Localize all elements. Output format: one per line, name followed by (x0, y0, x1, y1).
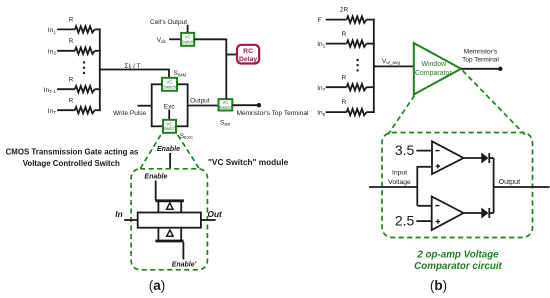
Enable' wire and label (172, 242, 197, 268)
wire loop left vertical (151, 83, 153, 127)
diode D1 (top) (464, 153, 494, 164)
input InT with resistor R (48, 97, 101, 116)
svg-text:In7: In7 (317, 85, 325, 93)
svg-text:Voltage Controlled Switch: Voltage Controlled Switch (23, 159, 120, 168)
svg-text:Out: Out (208, 209, 224, 219)
svg-text:Memristor's Top Terminal: Memristor's Top Terminal (237, 110, 309, 117)
reference 3.5 label and wire (395, 142, 432, 158)
wire loop bottom-right (176, 125, 188, 127)
Write Pulse input wire and label (113, 106, 152, 117)
svg-text:2.5: 2.5 (395, 213, 415, 229)
Cell's Output label and control wire (150, 19, 188, 33)
svg-text:InT: InT (48, 108, 56, 116)
input In2 with resistor R (48, 38, 101, 57)
svg-text:R: R (69, 76, 74, 83)
svg-text:Memristor's: Memristor's (464, 48, 498, 55)
transmission gate: bottom transistor (NMOS) (155, 228, 183, 241)
svg-text:CMOS Transmission Gate acting: CMOS Transmission Gate acting as (6, 147, 139, 156)
caption: 2 op-amp voltage comparator circuit (414, 249, 502, 272)
switch S_IMM (VC Switch) (162, 70, 187, 91)
op-amp A1 (top) (432, 141, 464, 174)
Enable label and gate wire (inside module) (144, 174, 167, 201)
svg-text:F: F (318, 17, 322, 24)
output bus wire joining diodes (493, 158, 495, 213)
input splitter wires to op-amp inputs (417, 166, 432, 206)
svg-text:In1: In1 (317, 41, 325, 49)
wire loop (parallel branch rectangle) (152, 83, 188, 127)
In wire and label (115, 209, 137, 220)
node Exc label and control wire (164, 103, 176, 120)
input InT-1 with resistor R (44, 76, 101, 95)
svg-text:R: R (342, 99, 347, 106)
RC Delay block (226, 45, 259, 64)
Enable control label (above module box) with stub (157, 146, 180, 168)
svg-text:Delay: Delay (239, 56, 257, 63)
svg-text:In8: In8 (317, 110, 325, 118)
svg-text:Switch: Switch (219, 105, 232, 110)
svg-text:R: R (69, 38, 74, 45)
svg-text:Vw_avg: Vw_avg (382, 58, 401, 66)
transmission gate: central channel band (138, 213, 201, 228)
wire loop top-right (177, 83, 188, 85)
svg-text:Output: Output (499, 177, 521, 186)
svg-text:2R: 2R (340, 7, 349, 14)
svg-text:R: R (342, 31, 347, 38)
svg-text:SRP: SRP (220, 120, 230, 127)
Output wire and label (a) (188, 98, 219, 106)
wire to memristor terminal with node dot (a) (232, 103, 309, 117)
switch S_RP (VC Switch) (219, 99, 233, 127)
input In8 with resistor R (b) (317, 99, 375, 118)
svg-text:Cell's Output: Cell's Output (150, 19, 187, 26)
reference 2.5 label and wire (395, 213, 432, 229)
dashed VC switch module box (131, 169, 207, 270)
svg-text:(b): (b) (430, 278, 447, 293)
svg-text:Input: Input (392, 169, 407, 176)
svg-text:Switch: Switch (181, 39, 194, 44)
svg-text:Enable': Enable' (172, 261, 197, 268)
svg-text:RC: RC (243, 48, 253, 55)
Output wire and label (b) (494, 177, 550, 187)
svg-text:3.5: 3.5 (395, 142, 415, 158)
switch for Vdc (VC Switch) (181, 33, 194, 46)
node Vw_avg wire and label (374, 58, 414, 67)
svg-text:Switch: Switch (163, 84, 176, 89)
wire from Vdc switch down to S_RP (194, 39, 226, 99)
svg-text:SIMM: SIMM (174, 70, 187, 77)
svg-text:2 op-amp Voltage: 2 op-amp Voltage (416, 249, 499, 260)
op-amp A2 (bottom) (432, 197, 464, 231)
summing bus wire (a) (99, 29, 101, 112)
svg-text:(a): (a) (149, 278, 166, 293)
svg-text:Comparator circuit: Comparator circuit (414, 261, 502, 272)
ellipsis dots between inputs (b) (356, 59, 358, 72)
svg-text:R: R (342, 74, 347, 81)
wire loop top-left (152, 83, 162, 85)
Input Voltage label and input rail (369, 169, 417, 187)
svg-text:R: R (69, 97, 74, 104)
svg-text:In2: In2 (48, 48, 56, 56)
Out wire and label (201, 209, 223, 220)
svg-text:Write Pulse: Write Pulse (113, 110, 146, 117)
svg-text:Exc: Exc (164, 103, 176, 110)
node sum wire and label ΣIi / T (100, 63, 169, 78)
wire loop right vertical (187, 83, 189, 127)
dashed callout lines from comparator to detail box (388, 71, 525, 135)
svg-text:Vdc: Vdc (157, 37, 167, 45)
svg-text:SEXC: SEXC (180, 133, 193, 140)
dashed comparator detail box (382, 133, 533, 238)
svg-text:Enable: Enable (157, 146, 180, 153)
Vdc label and wire (157, 37, 181, 45)
dashed callout triangle from S_EXC (140, 135, 200, 169)
wire comparator output to memristor terminal with node dot (b) (461, 67, 502, 71)
wire loop bottom-left (152, 125, 163, 127)
switch S_EXC (VC Switch) (163, 120, 193, 140)
input In1 with resistor R (b) (317, 31, 375, 50)
svg-text:Voltage: Voltage (388, 179, 411, 186)
label Memristor's Top Terminal (b) (462, 48, 499, 63)
svg-text:InT-1: InT-1 (44, 87, 57, 95)
caption: CMOS transmission gate text (6, 147, 139, 168)
input F with resistor 2R (318, 7, 375, 25)
svg-text:Enable: Enable (144, 174, 167, 181)
svg-text:Output: Output (190, 98, 210, 105)
diode D2 (bottom) (464, 208, 494, 219)
svg-text:R: R (69, 17, 74, 24)
op-amp U window comparator (green triangle) (414, 43, 461, 95)
summing bus wire (b) (373, 19, 375, 113)
input In7 with resistor R (b) (317, 74, 375, 93)
transmission gate: top transistor (PMOS) (156, 201, 184, 213)
input In1 with resistor R (48, 17, 101, 36)
svg-text:"VC Switch" module: "VC Switch" module (208, 157, 289, 167)
svg-text:Comparator: Comparator (415, 70, 453, 77)
svg-text:In: In (115, 209, 122, 219)
ellipsis dots between inputs (a) (83, 61, 85, 74)
svg-text:Switch: Switch (163, 126, 176, 131)
svg-text:Top Terminal: Top Terminal (462, 56, 499, 63)
svg-text:In1: In1 (48, 27, 56, 35)
svg-text:Window: Window (421, 61, 447, 68)
